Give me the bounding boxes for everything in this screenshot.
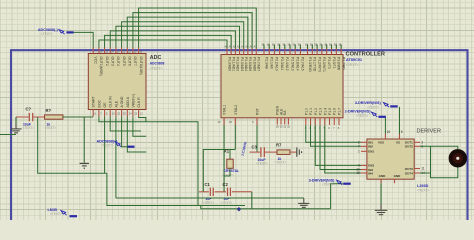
wire to mid ground [83,117,85,163]
svg-text:P1.4: P1.4 [323,108,327,115]
wire stair 2 [133,117,146,137]
svg-text:<TEXT>: <TEXT> [367,105,379,109]
svg-text:OUT2: OUT2 [105,57,109,66]
svg-text:CLK R: CLK R [137,97,141,108]
wire ADC pin1 label [74,32,94,47]
svg-text:P1.0: P1.0 [304,108,308,115]
svg-text:<TEXT>: <TEXT> [150,67,163,71]
svg-text:<TEXT>: <TEXT> [203,201,215,205]
wire AD5 bus [127,17,248,48]
svg-text:P2.1/A9: P2.1/A9 [270,57,274,69]
svg-text:P0.5/AD5: P0.5/AD5 [248,57,252,71]
svg-text:<TEXT>: <TEXT> [256,162,268,166]
driver top pins VSS VS [385,130,402,139]
svg-text:10: 10 [111,112,115,116]
pointer LM35 [61,211,66,214]
wire down to bottom rail [107,173,245,205]
svg-text:8: 8 [401,130,403,134]
svg-text:<TEXT>: <TEXT> [275,160,287,164]
svg-text:C?: C? [26,106,32,111]
svg-text:P1.7: P1.7 [337,108,341,115]
bus main loop [11,50,468,220]
svg-text:P0.2/AD2: P0.2/AD2 [236,57,240,71]
svg-text:OUT8(LSB): OUT8(LSB) [139,57,143,75]
svg-text:18: 18 [229,120,233,124]
wire ADC pin2 long [99,117,198,206]
label ADC0808(+) [97,139,119,147]
svg-text:AT89C51: AT89C51 [346,58,362,62]
wire VSS up [384,117,386,134]
svg-text:P1.3: P1.3 [319,108,323,115]
svg-text:12: 12 [140,112,144,116]
pointer 3-DRIVER top [384,103,389,106]
wire C2 down to rail [251,192,253,209]
capacitor C3 [261,147,264,157]
svg-text:P1.1: P1.1 [309,108,313,115]
label 2-DRIVER(N/S) [345,110,372,118]
svg-text:P0.4/AD4: P0.4/AD4 [244,57,248,71]
wire-end ADC0808(-) [66,31,73,33]
svg-text:IN4: IN4 [368,171,373,175]
svg-text:P3.2/INT0: P3.2/INT0 [317,57,321,72]
svg-text:25: 25 [123,112,127,116]
capacitor C1 [199,188,226,196]
svg-text:OUT5: OUT5 [122,57,126,66]
resistor R7 body [277,150,290,155]
wire OUT3 stub [430,146,432,173]
ground mid [80,163,89,168]
wire AD4 bus [122,22,244,49]
svg-text:VSS: VSS [378,141,384,145]
svg-text:CLK IN: CLK IN [109,96,113,108]
controller top pin names [227,57,345,72]
svg-text:OUT6: OUT6 [128,57,132,66]
controller pins PSEN ALE EA [276,105,291,128]
wire from left edge [0,134,16,136]
wire stair 1 [110,117,141,132]
wire stair 4 [127,117,146,153]
wire branch down left [38,117,107,173]
ADC bottom pin names [92,94,141,108]
svg-text:VS: VS [396,141,400,145]
svg-text:P0.7/AD7: P0.7/AD7 [257,57,261,71]
wire OUT2 to motor top [420,146,458,149]
pointer 2-DRIVER [372,112,377,115]
capacitor C? [29,113,44,121]
svg-text:OUT3: OUT3 [111,57,115,66]
svg-text:X1: X1 [224,149,230,154]
svg-text:19: 19 [217,120,221,124]
wire AD2 bus [110,31,235,49]
wire C? left lead [16,116,29,118]
svg-text:P2.0/A8: P2.0/A8 [264,57,268,69]
wire AD7 bus [139,8,257,48]
wire C3 to R7 [265,151,277,153]
svg-text:XTAL1: XTAL1 [223,105,227,115]
svg-text:OUT2: OUT2 [405,145,413,149]
svg-text:VREF(+): VREF(+) [131,94,135,108]
svg-text:7: 7 [358,144,360,148]
controller pins XTAL1 XTAL2 RST [217,118,257,125]
pointer 3-DRIVER bottom [337,180,342,183]
svg-text:16: 16 [387,130,391,134]
svg-text:START: START [92,95,96,107]
ADC top pins [93,48,143,54]
ground below driver [380,204,382,210]
svg-text:22: 22 [117,112,121,116]
driver left pins [356,140,367,175]
svg-text:P2.3/A11: P2.3/A11 [280,57,284,70]
wire ADC pin3 long down [104,117,106,174]
svg-text:P2.4/A12: P2.4/A12 [285,57,289,71]
wire P1.3 to driver [320,125,361,170]
svg-text:<TEXT>: <TEXT> [50,212,62,216]
capacitor C2 [228,188,252,196]
wire-end ADC0808(+) [128,146,135,148]
svg-text:C2: C2 [223,182,229,187]
wire rail to ground [116,117,304,199]
ground below C? left [10,117,21,133]
wire P1.0 to driver [306,125,361,142]
svg-text:OUT1(MSB): OUT1(MSB) [99,57,103,76]
label LM35 [48,208,63,216]
wire P1.1 to driver [311,125,361,146]
svg-text:C1: C1 [205,182,211,187]
svg-text:CONTROLLER: CONTROLLER [346,51,386,57]
svg-text:<TEXT>: <TEXT> [45,126,57,130]
driver bottom pins GND [381,179,395,183]
svg-text:ADD A: ADD A [126,96,130,107]
svg-text:XTAL2: XTAL2 [234,105,238,115]
controller pins P1.0-P1.7 [304,108,341,130]
svg-text:A GND: A GND [120,96,124,107]
ADC U1 body [88,54,146,110]
wire P1.2 to driver [315,125,361,165]
ADC bottom pins [93,110,138,117]
svg-text:1: 1 [358,149,360,153]
wire-end 2-DRIVER [378,116,386,118]
svg-text:P2.5/A13: P2.5/A13 [290,57,294,71]
wire RST down [256,125,258,152]
wire OUT4 to motor bottom [420,167,458,178]
svg-text:P0.1/AD1: P0.1/AD1 [231,57,235,71]
svg-text:R7: R7 [276,143,282,148]
svg-text:GND: GND [379,174,387,178]
wire driver gnd [380,183,382,210]
svg-text:P2.7/A15: P2.7/A15 [301,57,305,71]
svg-text:2-DRIVER(N/S): 2-DRIVER(N/S) [345,110,372,114]
svg-text:P3.3/INT1: P3.3/INT1 [322,57,326,72]
svg-text:OUT4: OUT4 [116,57,120,66]
svg-text:P2.6/A14: P2.6/A14 [296,57,300,71]
svg-text:EOC: EOC [97,99,101,107]
svg-text:<TEXT>: <TEXT> [346,63,359,67]
svg-text:24: 24 [129,112,133,116]
svg-text:P1.6: P1.6 [333,108,337,115]
svg-text:P3.1/TXD: P3.1/TXD [313,57,317,72]
motor M1 [449,149,467,167]
resistor R? body [45,115,63,119]
svg-text:OUT3: OUT3 [405,167,413,171]
svg-text:15: 15 [356,171,360,175]
svg-text:P3.5/T1: P3.5/T1 [332,57,336,69]
ground mid rail [303,198,305,203]
svg-text:CRYSTAL: CRYSTAL [224,169,240,173]
wire C3 left lead [250,151,261,153]
svg-text:RST: RST [256,108,260,115]
svg-text:<TEXT>: <TEXT> [101,144,113,148]
controller U2 body [221,55,343,118]
origin marker diamond [237,207,241,212]
controller bottom pin names left [223,105,260,115]
wire stair 3 [122,117,127,147]
svg-text:P0.3/AD3: P0.3/AD3 [240,57,244,71]
wire-end 3-DRIVER top [390,105,398,107]
svg-text:<TEXT>: <TEXT> [222,173,234,177]
ground right of R7 rotated [297,147,302,156]
wire R7 right [290,151,297,153]
svg-text:OUT7: OUT7 [133,57,137,66]
driver pin names [368,141,413,179]
svg-text:<TEXT>: <TEXT> [356,114,368,118]
svg-text:<TEXT>: <TEXT> [23,126,35,130]
controller top pins P3 with stubs [305,44,342,55]
svg-text:DERIVER: DERIVER [417,129,441,135]
wire ADC pin9 jog [139,117,146,122]
svg-text:ADC0808: ADC0808 [150,61,165,65]
svg-text:VCC: VCC [94,57,98,65]
svg-text:OUT4: OUT4 [405,171,413,175]
label 3-DRIVER(N/S) bottom [309,178,336,186]
driver right pins [414,140,425,175]
svg-text:P1.5: P1.5 [328,108,332,115]
controller top pins P2 with stubs [261,44,301,55]
label ADC0808(-) [38,28,59,36]
wire AD0 bus [99,40,227,49]
svg-text:<TEXT>: <TEXT> [41,32,53,36]
crystal X1 body [227,159,233,168]
wire R? to ADC pin [63,116,93,118]
wire XTAL1 down [223,125,225,192]
wire bottom rail [201,206,331,209]
wire-end LM35 [70,215,78,217]
wire-end 3-DRIVER bottom [343,183,351,185]
svg-text:ADC: ADC [150,55,162,61]
svg-text:P0.0/AD0: P0.0/AD0 [227,57,231,71]
svg-text:P3.7/RD: P3.7/RD [341,57,345,70]
wire XTAL2 down [234,125,236,150]
label 3-DRIVER(N/S) top [355,101,382,109]
svg-text:P0.6/AD6: P0.6/AD6 [252,57,256,71]
wire crystal bottom [224,168,230,176]
svg-text:R?: R? [46,108,52,113]
svg-text:C3: C3 [252,144,258,149]
svg-text:ALE: ALE [114,100,118,107]
pointer ADC0808(-) [59,30,64,33]
svg-text:OE: OE [103,102,107,108]
svg-text:<TEXT>: <TEXT> [417,188,430,192]
svg-text:P3.4/T0: P3.4/T0 [327,57,331,69]
svg-text:P3.6/WR: P3.6/WR [337,57,341,71]
svg-text:P1.2: P1.2 [314,108,318,115]
ADC top pin names [94,57,143,76]
wire crystal top [203,150,235,192]
wire AD6 bus [133,13,252,49]
svg-text:EN1: EN1 [368,150,374,154]
wire P1.4 to driver [325,125,361,173]
svg-text:<TEXT>: <TEXT> [322,182,334,186]
svg-text:P3.0/RXD: P3.0/RXD [308,57,312,72]
svg-text:IN2: IN2 [368,145,373,149]
wire rail up right [331,184,343,209]
svg-text:<TEXT>: <TEXT> [221,201,233,205]
svg-text:11: 11 [421,167,425,171]
ADC bottom pin numbers [94,112,143,116]
svg-text:EA: EA [283,110,287,115]
wire AD3 bus [116,26,240,48]
controller top pins P0 [224,46,257,55]
wire AD1 bus [105,35,232,48]
wire VS up [399,107,401,134]
wire crystal stem top [229,150,231,160]
pointer ADC0808(+) [116,142,121,145]
svg-text:P2.2/A10: P2.2/A10 [275,57,279,71]
svg-text:23: 23 [134,112,138,116]
driver U3 body [367,139,414,179]
svg-text:GND: GND [394,174,402,178]
